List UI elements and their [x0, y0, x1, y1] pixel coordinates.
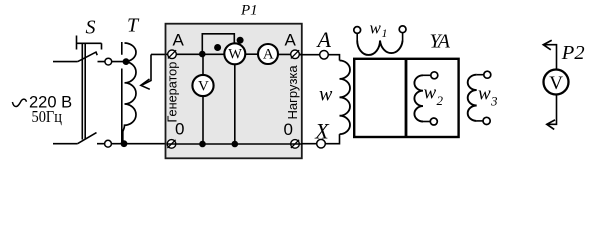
winding w label [319, 84, 333, 106]
label Нагрузка (rotated) [285, 65, 300, 120]
wire switch to T top [98, 61, 125, 63]
svg-text:w: w [424, 83, 437, 104]
label Генератор (rotated) [166, 62, 180, 123]
wire T tap to P1 [151, 53, 168, 55]
bottom wire in P1 [167, 143, 302, 145]
winding w3 label [478, 84, 498, 109]
polarity dot 2 [237, 37, 244, 44]
junction dot T top [123, 58, 130, 65]
svg-text:0: 0 [284, 120, 293, 139]
winding w [340, 61, 351, 135]
wire V column [202, 54, 204, 144]
YA label [430, 31, 451, 53]
wire top-left from source [53, 61, 78, 63]
svg-text:P2: P2 [561, 42, 585, 64]
junction dot W bottom [232, 141, 239, 148]
svg-text:V: V [549, 73, 563, 94]
wattmeter W [224, 43, 245, 64]
wire W to A [246, 53, 259, 55]
label A right [285, 31, 297, 50]
switch blade top [78, 52, 98, 62]
svg-text:A: A [316, 27, 332, 52]
transformer T core line [121, 42, 123, 144]
svg-text:50Гц: 50Гц [32, 107, 63, 126]
junction dot V bottom [199, 141, 206, 148]
magnetic core YA [354, 59, 458, 137]
terminal P1 left top [168, 50, 177, 59]
wire bottom-left from source [53, 143, 78, 145]
terminal P1 right top [291, 50, 300, 59]
svg-text:V: V [198, 78, 209, 94]
transformer T winding [123, 43, 136, 144]
winding w1 label [370, 19, 388, 41]
magnetic core YA divider [405, 59, 408, 137]
wire W bottom column [234, 64, 236, 144]
P2 bottom arrowhead [547, 120, 555, 129]
wire P1 to node A [299, 55, 340, 61]
terminal P1 left bottom [167, 140, 176, 149]
winding w2 [414, 72, 437, 125]
voltmeter V [192, 75, 213, 96]
svg-text:A: A [285, 31, 297, 50]
label 0 right [284, 120, 293, 139]
node X terminal circle [317, 139, 326, 148]
P2 top arrowhead [543, 40, 551, 50]
wire X to winding w [302, 134, 340, 144]
junction dot T bottom [121, 140, 128, 147]
winding w2 label [424, 83, 444, 109]
svg-text:w: w [319, 84, 333, 106]
transformer T label [127, 14, 140, 36]
terminal P1 right bottom [291, 140, 300, 149]
svg-text:A: A [173, 31, 185, 50]
source label 220V 50Hz [12, 99, 26, 106]
svg-text:w: w [370, 19, 382, 38]
svg-text:w: w [478, 84, 491, 105]
node A label [316, 27, 332, 52]
svg-text:Нагрузка: Нагрузка [285, 65, 300, 120]
polarity dot 1 [214, 44, 221, 51]
switch link line right [84, 43, 86, 139]
svg-text:YA: YA [430, 31, 451, 53]
svg-text:3: 3 [490, 94, 498, 109]
wire T bottom to P1 [127, 143, 168, 145]
svg-text:X: X [314, 119, 330, 144]
main top wire in P1 [166, 53, 224, 55]
label A left [173, 31, 185, 50]
svg-text:S: S [86, 17, 96, 39]
terminal circle bottom (switch-T) [105, 140, 112, 147]
wire A to right terminal [278, 53, 302, 55]
node X label [314, 119, 330, 144]
winding w3 [468, 71, 491, 124]
switch blade bottom [78, 133, 97, 144]
node A terminal circle [320, 51, 329, 60]
junction dot loop/main [199, 51, 206, 58]
ammeter A [258, 44, 278, 64]
svg-text:2: 2 [437, 93, 444, 108]
wattmeter voltage loop [202, 34, 234, 54]
svg-text:P1: P1 [240, 3, 258, 19]
P2 label [561, 42, 585, 64]
winding w1 [354, 26, 406, 55]
svg-text:1: 1 [382, 26, 388, 40]
switch S label [86, 17, 96, 39]
T tap arrow [143, 55, 152, 85]
label 0 left [175, 120, 184, 139]
svg-text:A: A [263, 47, 274, 63]
P1 label [240, 3, 258, 19]
P1 box [166, 24, 302, 159]
svg-text:0: 0 [175, 120, 184, 139]
P2 voltmeter circle [544, 70, 569, 95]
P2 top lead [545, 45, 557, 70]
svg-text:Генератор: Генератор [166, 62, 180, 123]
svg-text:T: T [127, 14, 140, 36]
terminal circle top (switch-T) [105, 58, 112, 65]
switch link line left [81, 43, 83, 139]
svg-text:W: W [228, 46, 242, 62]
P2 bottom lead [549, 94, 557, 124]
wire switch to T bottom [97, 143, 127, 145]
switch top bar [77, 36, 102, 50]
